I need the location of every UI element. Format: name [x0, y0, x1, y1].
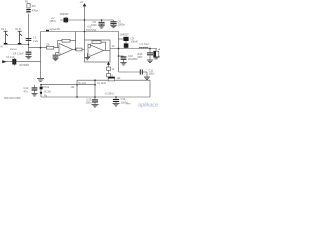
- svg-text:stereo: stereo: [10, 48, 17, 51]
- op-amp U1 TDA7294 box: [85, 40, 111, 62]
- pin box 10: [107, 67, 111, 70]
- svg-text:IN R: IN R: [16, 27, 21, 31]
- ground under C10: [120, 62, 126, 64]
- wire feedback loop A1: [58, 41, 76, 50]
- svg-text:(35V): (35V): [50, 19, 56, 23]
- wire V9 right riser: [149, 80, 151, 97]
- svg-text:C1 1uF: C1 1uF: [6, 55, 15, 59]
- capacitor C9 zobel: [149, 49, 151, 53]
- svg-text:1000u: 1000u: [118, 23, 126, 27]
- ground under C12: [32, 93, 38, 95]
- svg-text:R1: R1: [25, 0, 29, 3]
- wire V6: [76, 80, 78, 97]
- svg-text:M (3k): M (3k): [44, 91, 51, 94]
- capacitor C12 47uF: [34, 85, 36, 88]
- svg-text:+U: +U: [80, 0, 84, 4]
- svg-text:L 0.7uH: L 0.7uH: [140, 42, 149, 46]
- capacitor C2 top chain: [26, 9, 30, 10]
- ground under C11: [144, 76, 150, 78]
- wire H4 signal to opamp: [29, 47, 60, 49]
- capacitor C3 on input node: [26, 37, 32, 40]
- svg-text:47u: 47u: [24, 89, 29, 93]
- capacitor C6 1000u/50V: [113, 20, 115, 21]
- svg-text:TDA7294: TDA7294: [86, 29, 97, 32]
- wire H10 feedback lower: [5, 61, 41, 63]
- wire H2 bus: [41, 31, 119, 33]
- capacitor C10 22uF on V3: [119, 55, 124, 57]
- wire H9 bottom rail: [41, 96, 150, 98]
- svg-text:2R7: 2R7: [138, 55, 143, 59]
- wire V3 right bus: [118, 32, 120, 73]
- svg-text:100n: 100n: [91, 23, 97, 27]
- svg-text:1M: 1M: [32, 4, 36, 8]
- svg-text:IN L: IN L: [2, 27, 7, 31]
- wire U1 output pin 14: [104, 50, 111, 52]
- ground G1: [37, 78, 44, 80]
- svg-text:IN: IN: [0, 45, 3, 48]
- svg-text:100n: 100n: [149, 72, 155, 76]
- svg-text:-: -: [60, 46, 61, 49]
- speaker LS: [155, 49, 157, 52]
- ground under C14: [113, 103, 120, 105]
- capacitor C13 100n on -U rail: [94, 96, 96, 98]
- ground inside U1: [85, 57, 90, 59]
- wire H3 jacks bus: [4, 43, 8, 44]
- resistor R6 on H7: [108, 77, 114, 81]
- ground under C4: [25, 56, 31, 58]
- svg-text:signal 0V: signal 0V: [50, 27, 61, 31]
- pin box 9: [107, 74, 111, 77]
- wire +U rail top: [60, 19, 114, 21]
- capacitor C11 100n/250V: [140, 70, 141, 75]
- resistor R4 series: [76, 48, 82, 51]
- wire A1 output: [73, 49, 85, 51]
- svg-text:-U (35V): -U (35V): [104, 92, 114, 96]
- wire H8: [41, 84, 95, 86]
- wire U1 plus input to ground: [86, 54, 89, 58]
- svg-text:Rs 10k: Rs 10k: [79, 82, 87, 85]
- ground under C6: [110, 24, 116, 26]
- wire V8 left riser: [40, 85, 42, 97]
- pad P2: [40, 92, 42, 94]
- resistor R3 feedback: [62, 39, 70, 42]
- wire U1 internal feedback: [88, 42, 106, 50]
- svg-text:C4 2.2uF: C4 2.2uF: [13, 52, 24, 56]
- watermark dash: [126, 102, 130, 105]
- wire A1 plus input down: [56, 53, 60, 55]
- op-amp U1 triangle: [88, 44, 104, 57]
- svg-text:470p: 470p: [32, 9, 38, 13]
- resistor R5 inside U1: [92, 41, 101, 44]
- svg-text:100nF: 100nF: [131, 40, 139, 44]
- ground under C7: [53, 57, 59, 59]
- wire V2 ground column: [40, 32, 42, 79]
- svg-text:Cs 10uF: Cs 10uF: [97, 82, 107, 85]
- svg-text:TDA7294 100W: TDA7294 100W: [4, 97, 22, 100]
- wire V7: [94, 80, 96, 97]
- pad P1: [40, 87, 43, 90]
- svg-text:100n: 100n: [86, 101, 92, 105]
- capacitor C7 under A1: [53, 54, 59, 57]
- capacitor C14 1000u on -U rail: [115, 96, 117, 98]
- wire H6 bootstrap: [119, 71, 140, 73]
- svg-text:22u/50V: 22u/50V: [128, 57, 138, 61]
- svg-text:M 10k: M 10k: [43, 86, 50, 89]
- svg-text:2.2u: 2.2u: [33, 39, 39, 43]
- wire H7 mute rail: [77, 79, 150, 81]
- svg-text:1N4007: 1N4007: [120, 33, 130, 37]
- wire V4 input node column: [28, 14, 30, 48]
- ground under C5: [98, 25, 104, 27]
- op-amp A1: [59, 44, 73, 56]
- svg-text:1N4007: 1N4007: [60, 12, 70, 16]
- svg-text:R9 680R: R9 680R: [20, 64, 30, 67]
- svg-text:22k: 22k: [46, 43, 51, 47]
- wire V10 mute pins: [108, 62, 110, 80]
- wire V1 supply feed down: [84, 5, 86, 40]
- capacitor C8 on output node: [124, 43, 129, 47]
- capacitor C4 to ground below node: [28, 48, 30, 52]
- svg-text:aplikace: aplikace: [138, 102, 158, 108]
- wire stub bus to feedback: [75, 32, 77, 41]
- ground under C9: [147, 59, 153, 61]
- ground under C13: [92, 104, 99, 106]
